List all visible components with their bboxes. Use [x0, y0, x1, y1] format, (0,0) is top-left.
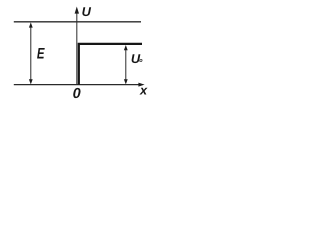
axis U arrowhead	[75, 7, 79, 14]
dimension arrow E (double-headed)	[29, 22, 33, 84]
dimension arrow U0 (double-headed)	[124, 45, 128, 84]
svg-text:0: 0	[73, 86, 81, 102]
svg-text:x: x	[139, 83, 148, 98]
svg-text:E: E	[37, 45, 45, 62]
svg-text:o: o	[139, 58, 143, 64]
label U0 (step height)	[131, 51, 143, 66]
svg-text:U: U	[82, 4, 92, 19]
energy level line E	[14, 21, 141, 23]
axis x arrowhead	[138, 83, 144, 87]
step potential polyline	[79, 44, 142, 85]
axis U (vertical axis line)	[76, 9, 78, 85]
axis x (horizontal axis line)	[14, 84, 140, 86]
